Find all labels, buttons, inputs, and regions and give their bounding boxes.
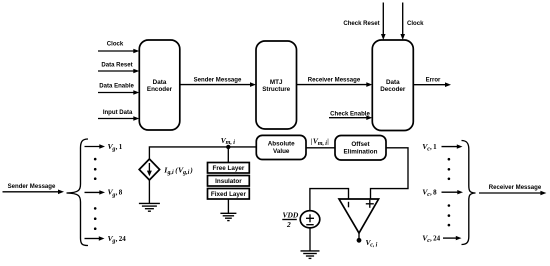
node Vg,8 arrow [85,188,123,199]
block Offset Elimination [335,136,386,161]
wire Clock (top input to decoder) [400,3,424,41]
svg-text:2: 2 [286,220,291,229]
svg-text:Fixed Layer: Fixed Layer [211,191,247,198]
wire Absolute Value to Offset Elimination [306,147,335,149]
dots between Vc,8 and Vc,24 [448,204,451,226]
svg-text:Data: Data [386,79,400,86]
label Ig,i (Vg,i) [163,165,193,176]
wire Sender Message (encoder to MTJ) [180,77,256,87]
wire Check Enable input [329,111,372,120]
svg-text:Input Data: Input Data [103,110,133,116]
svg-text:VDD: VDD [283,211,299,220]
svg-text:Sender Message: Sender Message [8,184,56,190]
right curly brace [462,141,476,245]
svg-text:MTJ: MTJ [270,79,283,86]
wire current source top to Vm,i node and Absolute Value [149,147,256,159]
wire VDD/2 to op-amp - input [310,189,349,211]
wire Offset Elimination output to op-amp + input [371,148,409,199]
svg-text:Free Layer: Free Layer [212,165,244,172]
wire node to Free Layer [227,147,229,163]
input Clock arrow [98,42,139,54]
dots between Vc,1 and Vc,8 [448,158,451,180]
svg-text:Clock: Clock [107,42,124,48]
ground under current source [139,180,160,211]
block MTJ Structure [256,41,297,129]
svg-text:Clock: Clock [407,21,424,27]
svg-text:Data: Data [153,79,167,86]
svg-text:Value: Value [273,148,290,155]
ground under VDD/2 [301,228,320,259]
node Vg,1 arrow [85,142,123,153]
label VDD/2 [282,211,299,229]
svg-text:Data Reset: Data Reset [101,63,132,69]
svg-text:Elimination: Elimination [344,148,378,155]
svg-text:Data Enable: Data Enable [99,84,134,90]
svg-text:Absolute: Absolute [268,141,295,148]
svg-text:Insulator: Insulator [215,178,242,185]
dots between Vg,1 and Vg,8 [94,158,97,180]
label Receiver Message (bottom right) [479,185,546,195]
current source Ig,i diamond [139,159,159,180]
svg-text:Structure: Structure [262,86,290,93]
op-amp comparator U1 [339,199,379,233]
block Absolute Value [256,135,306,159]
svg-text:Check Reset: Check Reset [343,21,379,27]
wire Check Reset (top input) [343,3,385,41]
box Free Layer [208,163,250,174]
svg-text:Receiver Message: Receiver Message [489,185,542,191]
input Input Data arrow [98,110,139,121]
label Sender Message (bottom left) [3,184,65,194]
svg-text:Vc, 24: Vc, 24 [422,233,440,244]
node Vg,24 arrow [85,234,127,245]
left curly brace [67,139,89,246]
op-amp output node Vc,i [357,233,378,248]
svg-text:Check Enable: Check Enable [330,111,370,117]
svg-text:Error: Error [426,77,441,83]
dots between Vg,8 and Vg,24 [94,207,97,230]
node Vc,24 arrow [422,233,461,244]
box Insulator [208,176,250,187]
svg-text:Vg, 1: Vg, 1 [108,142,123,153]
svg-text:Receiver Message: Receiver Message [308,77,361,83]
input Data Enable arrow [98,84,139,95]
svg-text:Vg, 24: Vg, 24 [108,234,127,245]
svg-text:Encoder: Encoder [147,86,173,93]
svg-text:Decoder: Decoder [380,86,406,93]
wire Receiver Message (MTJ to decoder) [297,77,373,87]
box Fixed Layer [208,189,250,200]
node Vc,1 arrow [422,142,462,153]
block Data Encoder [139,40,180,130]
node Vm,i dot [226,145,230,149]
block Data Decoder [372,40,413,131]
input Data Reset arrow [98,63,139,74]
wire Error output [413,77,451,87]
svg-text:Offset: Offset [351,141,370,148]
ground under MTJ stack [220,199,236,221]
node Vc,8 arrow [422,188,463,199]
source VDD/2 [300,211,320,228]
svg-text:Sender Message: Sender Message [194,77,242,83]
